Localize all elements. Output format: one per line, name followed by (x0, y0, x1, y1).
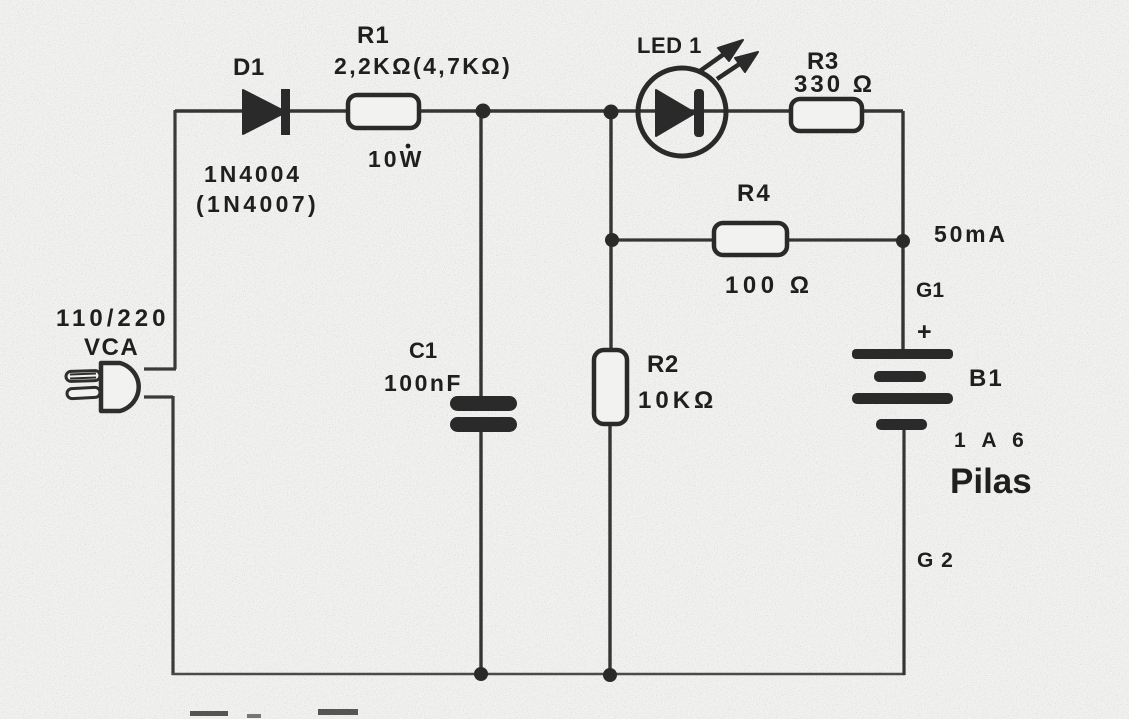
svg-text:110/220: 110/220 (56, 305, 169, 332)
svg-text:+: + (917, 318, 932, 346)
svg-text:D1: D1 (233, 54, 265, 81)
wire left rail lower (171, 396, 174, 675)
label 330Ω (794, 71, 875, 98)
caption fragment bottom (190, 709, 358, 718)
wire C1 branch lower (479, 431, 482, 675)
label 1N4004 (204, 161, 302, 187)
svg-text:C1: C1 (409, 338, 437, 363)
svg-text:Pilas: Pilas (950, 462, 1032, 501)
label R4 (737, 180, 772, 207)
label 10W with dot (368, 144, 424, 172)
svg-text:VCA: VCA (84, 334, 139, 361)
wire right rail lower (902, 430, 905, 675)
node junction bottom C1 (474, 667, 488, 681)
label 1 A 6 (954, 429, 1029, 452)
label 100nF (384, 370, 463, 396)
resistor R3 (791, 99, 862, 131)
wire plug bottom lead (144, 395, 173, 398)
capacitor C1 (450, 396, 517, 432)
node junction top C1 (476, 104, 491, 119)
node junction bottom R2 (603, 668, 617, 682)
svg-text:(1N4007): (1N4007) (196, 191, 319, 217)
svg-text:10KΩ: 10KΩ (638, 387, 717, 414)
label VCA (84, 334, 139, 361)
label LED 1 (637, 33, 702, 58)
svg-text:G1: G1 (916, 279, 944, 302)
label R3 (807, 48, 839, 75)
wire C1 branch upper (479, 111, 482, 397)
label R1 (357, 22, 390, 49)
svg-text:1N4004: 1N4004 (204, 161, 302, 187)
diode D1 (243, 89, 290, 135)
resistor R4 (714, 223, 787, 255)
svg-text:100 Ω: 100 Ω (725, 272, 813, 299)
label Pilas (950, 462, 1032, 501)
wire top rail (175, 109, 903, 112)
label 110/220 (56, 305, 169, 332)
svg-text:2,2KΩ(4,7KΩ): 2,2KΩ(4,7KΩ) (334, 53, 512, 79)
svg-text:R1: R1 (357, 22, 390, 49)
label B1 (969, 365, 1004, 392)
AC plug 110/220 VCA (66, 363, 139, 411)
wire R2 branch upper (609, 112, 612, 351)
node junction top R2 (604, 105, 619, 120)
svg-text:B1: B1 (969, 365, 1004, 392)
svg-text:100nF: 100nF (384, 370, 463, 396)
wire plug top lead (144, 367, 176, 370)
svg-text:R4: R4 (737, 180, 772, 207)
label 2,2KΩ(4,7KΩ) (334, 53, 512, 79)
wire R2 branch lower (608, 423, 611, 675)
battery B1 (852, 349, 953, 430)
label plus terminal (917, 318, 932, 346)
svg-text:G 2: G 2 (917, 549, 954, 572)
label G 2 (917, 549, 954, 572)
resistor R2 (594, 350, 627, 424)
label (1N4007) (196, 191, 319, 217)
label D1 (233, 54, 265, 81)
wire R4 row (612, 238, 903, 241)
svg-text:10W: 10W (368, 146, 424, 172)
label 10KΩ (638, 387, 717, 414)
label 50mA (934, 221, 1008, 247)
wire bottom rail (172, 673, 905, 676)
node junction R4 left (605, 233, 619, 247)
svg-text:330 Ω: 330 Ω (794, 71, 875, 98)
wire right rail upper (901, 111, 904, 349)
node junction R4 right 50mA (896, 234, 910, 248)
LED LED1 (638, 40, 758, 156)
svg-text:R2: R2 (647, 351, 679, 378)
label C1 (409, 338, 437, 363)
label 100Ω (725, 272, 813, 299)
label R2 (647, 351, 679, 378)
wire left rail upper (173, 110, 176, 369)
svg-text:1 A 6: 1 A 6 (954, 429, 1029, 452)
resistor R1 (348, 95, 419, 128)
svg-text:50mA: 50mA (934, 221, 1008, 247)
svg-text:LED 1: LED 1 (637, 33, 702, 58)
label G1 (916, 279, 944, 302)
